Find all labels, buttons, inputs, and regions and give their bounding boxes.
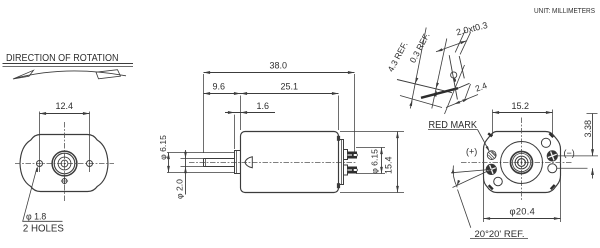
minus terminal screw	[547, 151, 557, 161]
detail tab edge strip thick	[421, 88, 458, 98]
shaft top line	[204, 158, 235, 160]
svg-text:(+): (+)	[466, 147, 477, 157]
end cap	[339, 140, 344, 185]
dim 2.4 ext E3	[445, 65, 465, 114]
dim 2.4 arrow left	[454, 101, 460, 105]
dim 25.1 arrow left	[241, 92, 248, 95]
shaft tip chamfer	[205, 159, 207, 167]
dim 25.1 ext right	[338, 96, 340, 131]
lower hole cross	[64, 177, 66, 184]
svg-text:0.3 REF.: 0.3 REF.	[407, 31, 431, 64]
dim 38.0 arrow left	[204, 71, 211, 74]
rear vertical centerline	[521, 118, 523, 201]
rear hole bottom-left	[494, 177, 503, 186]
dim phi6.15 left line	[168, 153, 170, 173]
dim 38.0 ext right	[354, 74, 356, 152]
phi6.15 left arrow bottom	[167, 166, 170, 173]
dim 15.4 line	[397, 132, 399, 193]
detail tab edge strip thin tail	[458, 83, 470, 88]
terminal lower tab mid slit	[348, 169, 353, 171]
phi20.4 arrow left	[484, 217, 491, 220]
svg-text:38.0: 38.0	[270, 60, 288, 70]
3.38 arrow up	[591, 168, 594, 175]
red mark leader arrow	[486, 146, 490, 152]
15.4 arrow top	[396, 132, 399, 139]
rear chamfer tab top-left	[488, 133, 492, 136]
dim 2.4 line	[446, 95, 478, 108]
angle 20 20 line A	[451, 169, 491, 172]
svg-text:2 HOLES: 2 HOLES	[23, 224, 64, 235]
phi1.8 leader arrow	[36, 166, 38, 172]
detail tab upper edge line	[397, 80, 452, 93]
svg-text:UNIT: MILLIMETERS: UNIT: MILLIMETERS	[534, 6, 595, 15]
angle leader	[458, 190, 471, 228]
phi6.15 right arrow top	[380, 148, 383, 155]
crimp tab top	[337, 136, 340, 141]
rotation arrowhead right	[96, 70, 121, 79]
front horizontal centerline	[15, 163, 114, 165]
detail eyelet circle	[451, 72, 457, 78]
3.38 arrow down	[591, 149, 594, 156]
dim 0.3 line steep	[432, 39, 447, 109]
rear chamfer tab top-right	[549, 133, 553, 137]
dim 1.6 arrow right	[241, 111, 248, 114]
red mark leader	[478, 130, 489, 151]
rotation arrowhead left	[13, 70, 34, 79]
dim 2.0xt0.3 line	[436, 41, 467, 52]
dim 15.4 ext bottom	[340, 192, 404, 194]
dim 12.4 extension right	[89, 112, 91, 173]
dim phi20.4 ext left	[483, 176, 485, 222]
svg-text:15.2: 15.2	[512, 101, 530, 111]
rear hole top-right	[541, 138, 550, 147]
dim 9.6 arrow left	[204, 92, 211, 95]
dim phi6.15 right ext bottom	[356, 173, 385, 175]
svg-text:3.38: 3.38	[583, 120, 593, 138]
label underline upper	[3, 63, 134, 65]
dim 0.3 arrow lower	[434, 90, 437, 96]
rotation arrow arc	[14, 71, 126, 79]
dim phi6.15 left ext bottom	[167, 172, 235, 174]
dim 9.6 line	[204, 93, 241, 95]
terminal lower base	[344, 165, 348, 175]
front boss ring second	[54, 153, 75, 174]
end cap inner line	[341, 140, 343, 186]
svg-text:2.4: 2.4	[474, 80, 489, 94]
angle arc arrow top	[452, 167, 455, 173]
side centerline	[189, 162, 357, 164]
dim 2.0 ext E5	[455, 30, 465, 52]
dim 15.2 ext left	[492, 110, 494, 137]
dim 12.4 arrow right	[83, 112, 90, 115]
svg-text:4.3 REF.: 4.3 REF.	[385, 40, 409, 73]
phi2.0 arrow upper	[184, 152, 187, 159]
terminal upper tab dark	[348, 152, 358, 159]
rear chamfer tab bottom-left	[489, 185, 493, 189]
front shaft dot	[64, 163, 66, 165]
3.38 ref line upper	[557, 155, 598, 157]
dim 12.4 extension left	[39, 112, 41, 173]
rear ring mid	[515, 156, 528, 169]
svg-text:φ 6.15: φ 6.15	[158, 135, 168, 160]
front boss ring outer	[52, 151, 77, 176]
phi6.15 left arrow top	[167, 153, 170, 160]
detail eyelet slot	[453, 78, 456, 82]
svg-text:1.6: 1.6	[257, 101, 270, 111]
rear chamfer tab bottom-right	[551, 185, 555, 189]
svg-text:φ20.4: φ20.4	[510, 207, 536, 217]
terminal lower tab dark	[348, 167, 358, 174]
rear outline	[484, 132, 561, 193]
3.38 ref line lower	[557, 167, 588, 169]
dim phi20.4 ext right	[560, 176, 562, 222]
motor can	[241, 132, 339, 193]
shaft end pip inside can	[245, 157, 252, 168]
dim 1.6 ext left	[234, 115, 236, 149]
rear boss ring outer	[511, 152, 533, 174]
angle arc	[453, 166, 457, 188]
detail tab face band right edge	[459, 56, 464, 78]
svg-text:(−): (−)	[564, 148, 575, 158]
dim phi6.15 right ext top	[356, 147, 385, 149]
dim 3.38 top tick	[587, 113, 598, 115]
3.38 lower tail	[592, 168, 594, 178]
angle arc arrow bottom	[457, 180, 461, 186]
dim 38.0 arrow right	[348, 71, 355, 74]
dim 2.4 ext E4	[464, 84, 471, 102]
terminal lower slot	[353, 169, 357, 172]
dim 2.0 ext E6	[460, 32, 471, 54]
rear shaft circle	[518, 159, 526, 167]
svg-text:12.4: 12.4	[56, 101, 74, 111]
svg-text:2.0xt0.3: 2.0xt0.3	[455, 20, 488, 37]
dim 38.0 line	[204, 72, 355, 74]
rear center dot	[521, 162, 523, 164]
dim phi2.0 ext top	[181, 158, 204, 160]
red mark hatched circle	[487, 151, 496, 160]
rear hole bottom-right	[548, 164, 557, 173]
dim 38.0 ext left	[203, 74, 205, 153]
bushing	[235, 151, 241, 174]
svg-text:15.4: 15.4	[383, 156, 393, 174]
dim 2.0 arrow left	[436, 48, 442, 51]
dim 2.4 arrow right	[462, 99, 468, 103]
rear big circle	[501, 142, 543, 184]
dim 15.2 arrow left	[493, 111, 500, 114]
front screw hole right	[87, 161, 93, 167]
plus terminal screw	[486, 164, 496, 174]
dim phi2.0 line	[185, 150, 187, 195]
label underline lower	[3, 66, 134, 68]
rear boss ring inner	[512, 153, 530, 171]
bushing face inner line	[236, 151, 238, 174]
front boss ring third	[58, 157, 71, 170]
svg-text:φ 6.15: φ 6.15	[370, 149, 380, 174]
dim 15.2 ext right	[552, 110, 554, 137]
dim phi6.15 left ext top	[167, 152, 235, 154]
front screw hole left	[37, 161, 43, 167]
dim 25.1 line	[241, 93, 339, 95]
detail tab face band left edge	[449, 55, 457, 99]
detail tab lower edge line	[400, 96, 442, 108]
front vertical centerline	[64, 122, 66, 202]
angle 20 20 line B	[453, 169, 492, 187]
svg-text:25.1: 25.1	[281, 82, 299, 92]
front shaft circle	[61, 160, 68, 167]
crimp tab bottom	[337, 183, 340, 188]
dim 4.3 arrow upper	[415, 78, 418, 84]
terminal upper tab mid slit	[348, 154, 353, 156]
terminal upper slot	[353, 154, 357, 157]
phi6.15 right arrow bottom	[380, 167, 383, 174]
rear horizontal centerline	[461, 162, 572, 164]
dim 1.6 line	[225, 112, 275, 114]
angle text underline	[470, 238, 528, 240]
front face extension line	[240, 96, 242, 131]
red mark hatch lines	[488, 151, 496, 159]
terminal upper base	[344, 150, 348, 160]
svg-text:φ 2.0: φ 2.0	[174, 179, 184, 199]
dim phi2.0 ext bottom	[181, 166, 204, 168]
svg-text:φ 1.8: φ 1.8	[26, 210, 46, 221]
red mark underline	[428, 129, 478, 131]
dim 15.4 ext top	[340, 131, 404, 133]
dim 9.6 arrow right	[234, 92, 241, 95]
15.4 arrow bottom	[396, 186, 399, 193]
dim 1.6 arrow left	[228, 111, 235, 114]
dim 12.4 line	[40, 113, 90, 115]
shaft tip face	[203, 159, 205, 167]
shaft bottom line	[204, 166, 235, 168]
dim phi20.4 line	[484, 218, 561, 220]
dim 15.2 line	[493, 112, 553, 114]
dim 4.3 arrow lower	[409, 100, 412, 106]
dim 25.1 arrow right	[332, 92, 339, 95]
svg-text:DIRECTION OF ROTATION: DIRECTION OF ROTATION	[6, 53, 119, 64]
front lower hole	[62, 179, 67, 184]
dim 12.4 arrow left	[40, 112, 47, 115]
dim phi6.15 right line	[381, 148, 383, 174]
dim 0.3 arrow upper	[436, 83, 439, 89]
svg-text:9.6: 9.6	[213, 82, 226, 92]
dim 2.0 arrow right	[460, 41, 466, 44]
phi20.4 arrow right	[554, 217, 561, 220]
front outline	[20, 135, 108, 192]
dim 4.3 line steep	[410, 28, 426, 109]
dim 15.2 arrow right	[546, 111, 553, 114]
dim 3.38 line upper	[592, 114, 594, 156]
phi1.8 leader line	[23, 168, 63, 222]
phi2.0 arrow lower	[184, 167, 187, 174]
